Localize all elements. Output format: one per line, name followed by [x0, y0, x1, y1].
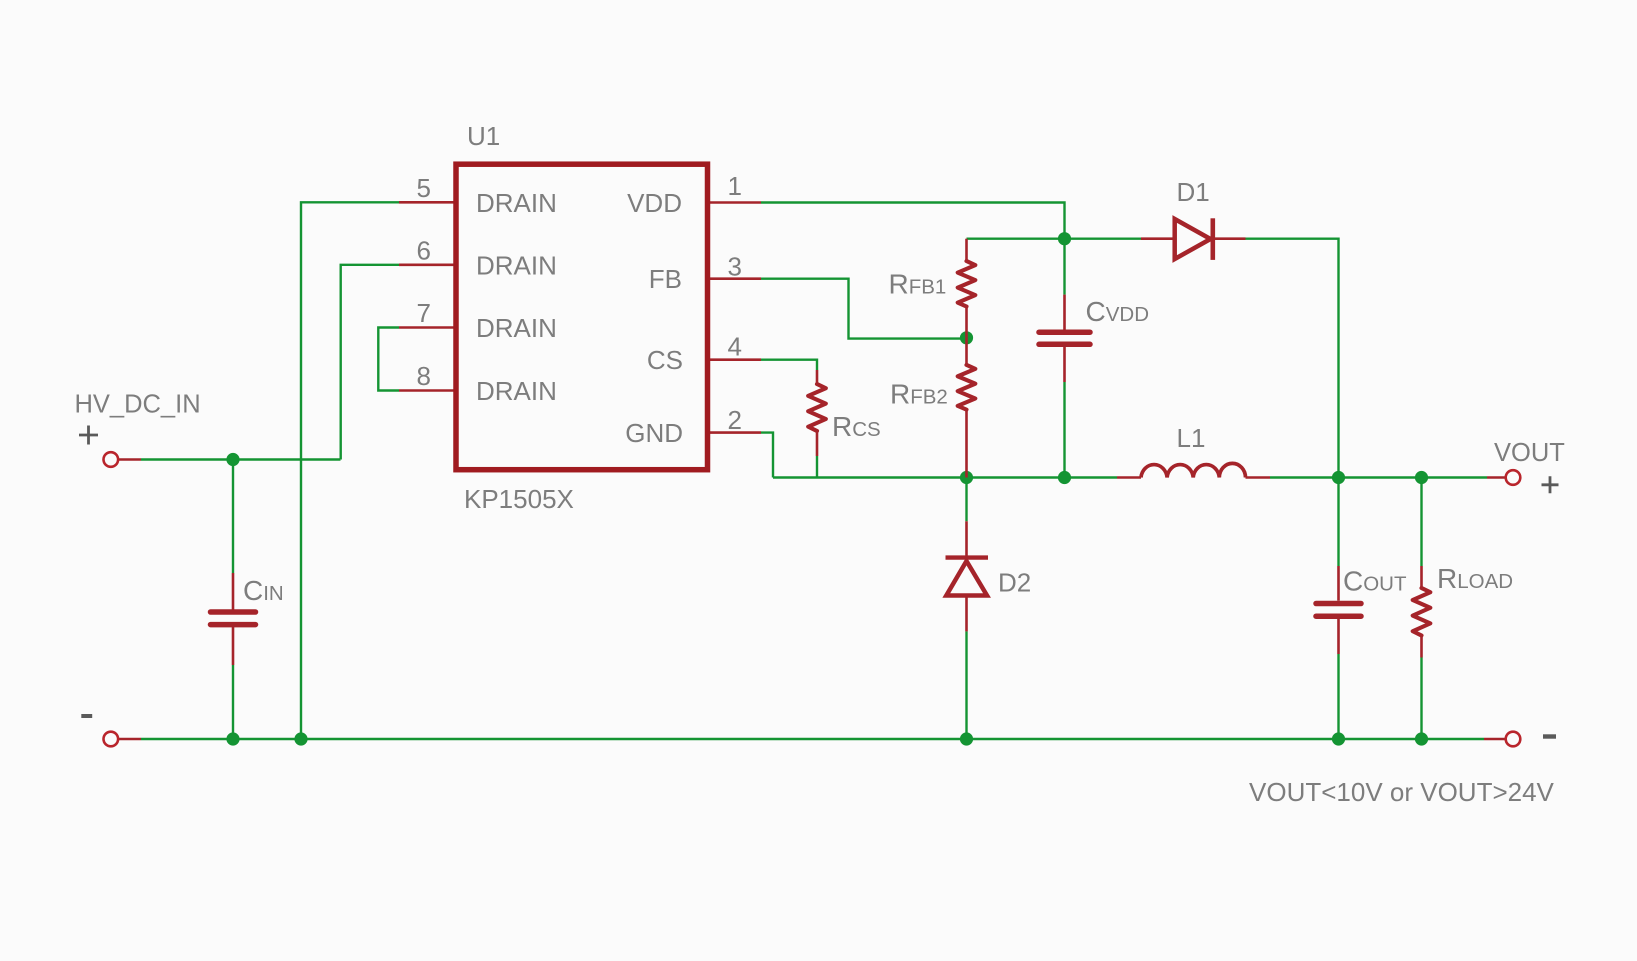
- svg-text:CS: CS: [647, 345, 683, 375]
- svg-text:VOUT: VOUT: [1494, 439, 1565, 467]
- svg-text:HV_DC_IN: HV_DC_IN: [75, 391, 201, 419]
- svg-text:DRAIN: DRAIN: [476, 376, 557, 406]
- svg-text:7: 7: [417, 298, 431, 328]
- svg-text:FB: FB: [649, 264, 682, 294]
- svg-text:VDD: VDD: [627, 188, 682, 218]
- svg-text:GND: GND: [625, 418, 683, 448]
- svg-text:KP1505X: KP1505X: [464, 484, 574, 514]
- svg-text:DRAIN: DRAIN: [476, 250, 557, 280]
- svg-text:D2: D2: [998, 568, 1031, 598]
- svg-text:D1: D1: [1177, 177, 1210, 207]
- svg-text:U1: U1: [467, 121, 500, 151]
- svg-text:3: 3: [728, 251, 742, 281]
- svg-text:2: 2: [728, 405, 742, 435]
- svg-text:1: 1: [728, 171, 742, 201]
- svg-text:6: 6: [417, 235, 431, 265]
- svg-text:8: 8: [417, 361, 431, 391]
- svg-text:5: 5: [417, 173, 431, 203]
- svg-text:DRAIN: DRAIN: [476, 188, 557, 218]
- svg-text:DRAIN: DRAIN: [476, 313, 557, 343]
- svg-text:4: 4: [728, 332, 742, 362]
- svg-text:L1: L1: [1177, 423, 1206, 453]
- svg-text:VOUT<10V or VOUT>24V: VOUT<10V or VOUT>24V: [1249, 777, 1555, 807]
